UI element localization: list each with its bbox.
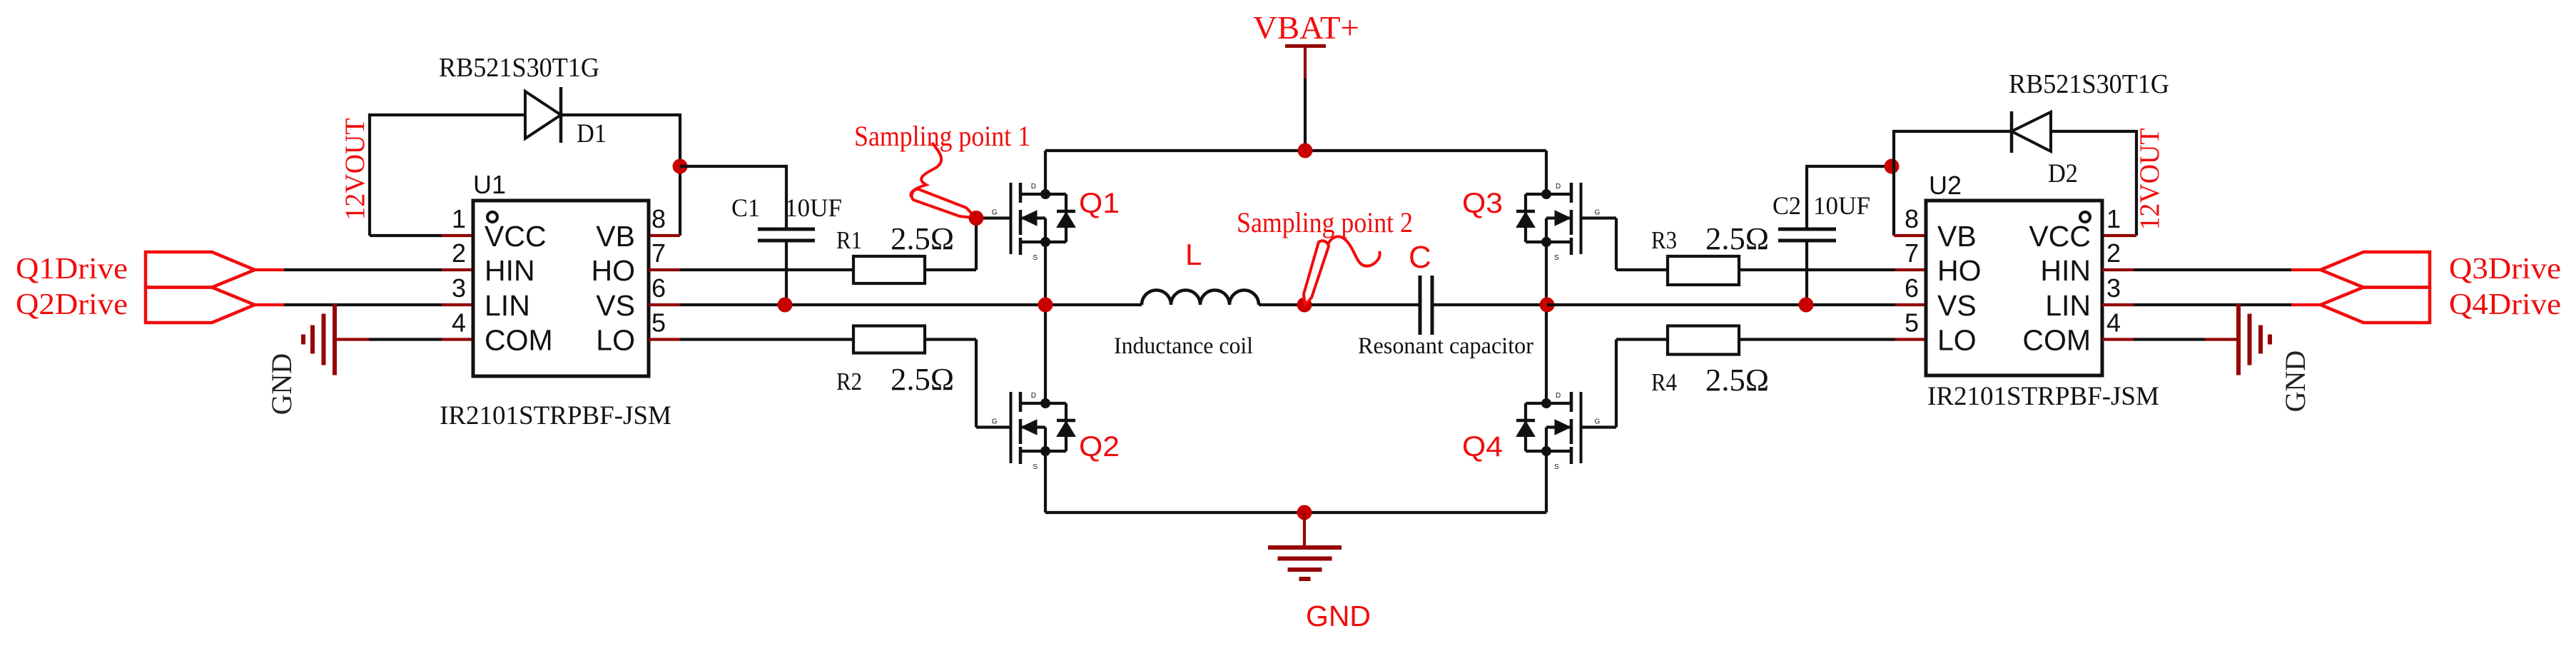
svg-text:VB: VB xyxy=(596,220,635,253)
svg-text:C1: C1 xyxy=(731,193,760,222)
svg-text:G: G xyxy=(1595,418,1601,426)
svg-text:C: C xyxy=(1409,240,1431,275)
svg-text:COM: COM xyxy=(485,324,553,357)
svg-text:2.5Ω: 2.5Ω xyxy=(891,362,954,397)
svg-text:8: 8 xyxy=(651,204,666,233)
svg-text:G: G xyxy=(1595,209,1601,217)
svg-text:Q1Drive: Q1Drive xyxy=(16,253,128,286)
svg-text:LIN: LIN xyxy=(485,289,530,322)
svg-text:VS: VS xyxy=(1937,289,1977,322)
svg-text:Sampling point 1: Sampling point 1 xyxy=(854,120,1030,152)
svg-text:R1: R1 xyxy=(836,226,862,254)
svg-text:GND: GND xyxy=(1306,600,1371,632)
svg-text:4: 4 xyxy=(452,308,466,338)
svg-text:S: S xyxy=(1033,463,1038,471)
svg-text:Q3: Q3 xyxy=(1462,188,1503,219)
svg-text:1: 1 xyxy=(2106,204,2121,233)
svg-text:GND: GND xyxy=(2279,350,2311,413)
svg-text:7: 7 xyxy=(651,238,666,268)
svg-text:R3: R3 xyxy=(1651,226,1677,254)
svg-text:2.5Ω: 2.5Ω xyxy=(1705,221,1769,256)
svg-text:3: 3 xyxy=(452,273,466,303)
svg-text:S: S xyxy=(1554,463,1559,471)
svg-text:GND: GND xyxy=(265,353,298,415)
svg-text:HIN: HIN xyxy=(485,254,535,287)
svg-text:5: 5 xyxy=(651,308,666,338)
svg-text:RB521S30T1G: RB521S30T1G xyxy=(439,53,599,83)
svg-text:5: 5 xyxy=(1905,308,1919,338)
svg-text:HIN: HIN xyxy=(2040,254,2091,287)
svg-text:D2: D2 xyxy=(2048,159,2078,188)
svg-text:IR2101STRPBF-JSM: IR2101STRPBF-JSM xyxy=(440,401,671,430)
svg-text:10UF: 10UF xyxy=(1813,191,1870,220)
svg-text:D: D xyxy=(1031,392,1036,400)
svg-text:G: G xyxy=(992,418,998,426)
svg-text:Q2Drive: Q2Drive xyxy=(16,288,128,321)
svg-text:HO: HO xyxy=(592,254,636,287)
svg-text:Resonant capacitor: Resonant capacitor xyxy=(1358,333,1533,359)
svg-text:U2: U2 xyxy=(1929,171,1962,200)
svg-text:VCC: VCC xyxy=(2029,220,2091,253)
svg-text:VS: VS xyxy=(596,289,635,322)
svg-text:LO: LO xyxy=(1937,324,1977,357)
svg-text:COM: COM xyxy=(2022,324,2091,357)
svg-text:12VOUT: 12VOUT xyxy=(340,118,370,220)
svg-text:Sampling point 2: Sampling point 2 xyxy=(1237,206,1413,238)
svg-text:VBAT+: VBAT+ xyxy=(1253,10,1359,46)
svg-text:2: 2 xyxy=(2106,238,2121,268)
svg-text:3: 3 xyxy=(2106,273,2121,303)
svg-text:Inductance coil: Inductance coil xyxy=(1114,333,1253,359)
svg-text:R2: R2 xyxy=(836,368,862,395)
svg-text:R4: R4 xyxy=(1651,368,1677,396)
svg-text:VB: VB xyxy=(1937,220,1977,253)
svg-text:12VOUT: 12VOUT xyxy=(2134,128,2165,230)
svg-text:Q3Drive: Q3Drive xyxy=(2449,253,2561,286)
svg-text:LIN: LIN xyxy=(2045,289,2091,322)
svg-text:HO: HO xyxy=(1937,254,1982,287)
svg-text:6: 6 xyxy=(1905,273,1919,303)
svg-text:D: D xyxy=(1556,392,1561,400)
svg-text:2.5Ω: 2.5Ω xyxy=(891,221,954,256)
svg-text:2.5Ω: 2.5Ω xyxy=(1705,363,1769,398)
svg-text:D1: D1 xyxy=(577,119,607,148)
svg-text:Q1: Q1 xyxy=(1079,188,1120,219)
svg-text:Q2: Q2 xyxy=(1079,431,1120,463)
svg-text:L: L xyxy=(1185,238,1202,271)
svg-text:S: S xyxy=(1554,254,1559,262)
svg-text:C2: C2 xyxy=(1773,191,1801,220)
svg-text:Q4Drive: Q4Drive xyxy=(2449,288,2561,321)
svg-text:4: 4 xyxy=(2106,308,2121,338)
svg-text:1: 1 xyxy=(452,204,466,233)
svg-text:D: D xyxy=(1031,183,1036,191)
svg-text:IR2101STRPBF-JSM: IR2101STRPBF-JSM xyxy=(1927,382,2159,411)
svg-text:7: 7 xyxy=(1905,238,1919,268)
svg-text:10UF: 10UF xyxy=(785,193,842,222)
svg-text:U1: U1 xyxy=(473,170,506,199)
svg-text:6: 6 xyxy=(651,273,666,303)
svg-text:LO: LO xyxy=(596,324,635,357)
svg-text:8: 8 xyxy=(1905,204,1919,233)
svg-text:2: 2 xyxy=(452,238,466,268)
svg-text:G: G xyxy=(992,209,998,217)
svg-text:VCC: VCC xyxy=(485,220,547,253)
svg-text:D: D xyxy=(1556,183,1561,191)
svg-text:Q4: Q4 xyxy=(1462,431,1503,463)
svg-text:S: S xyxy=(1033,254,1038,262)
svg-text:RB521S30T1G: RB521S30T1G xyxy=(2009,69,2169,99)
